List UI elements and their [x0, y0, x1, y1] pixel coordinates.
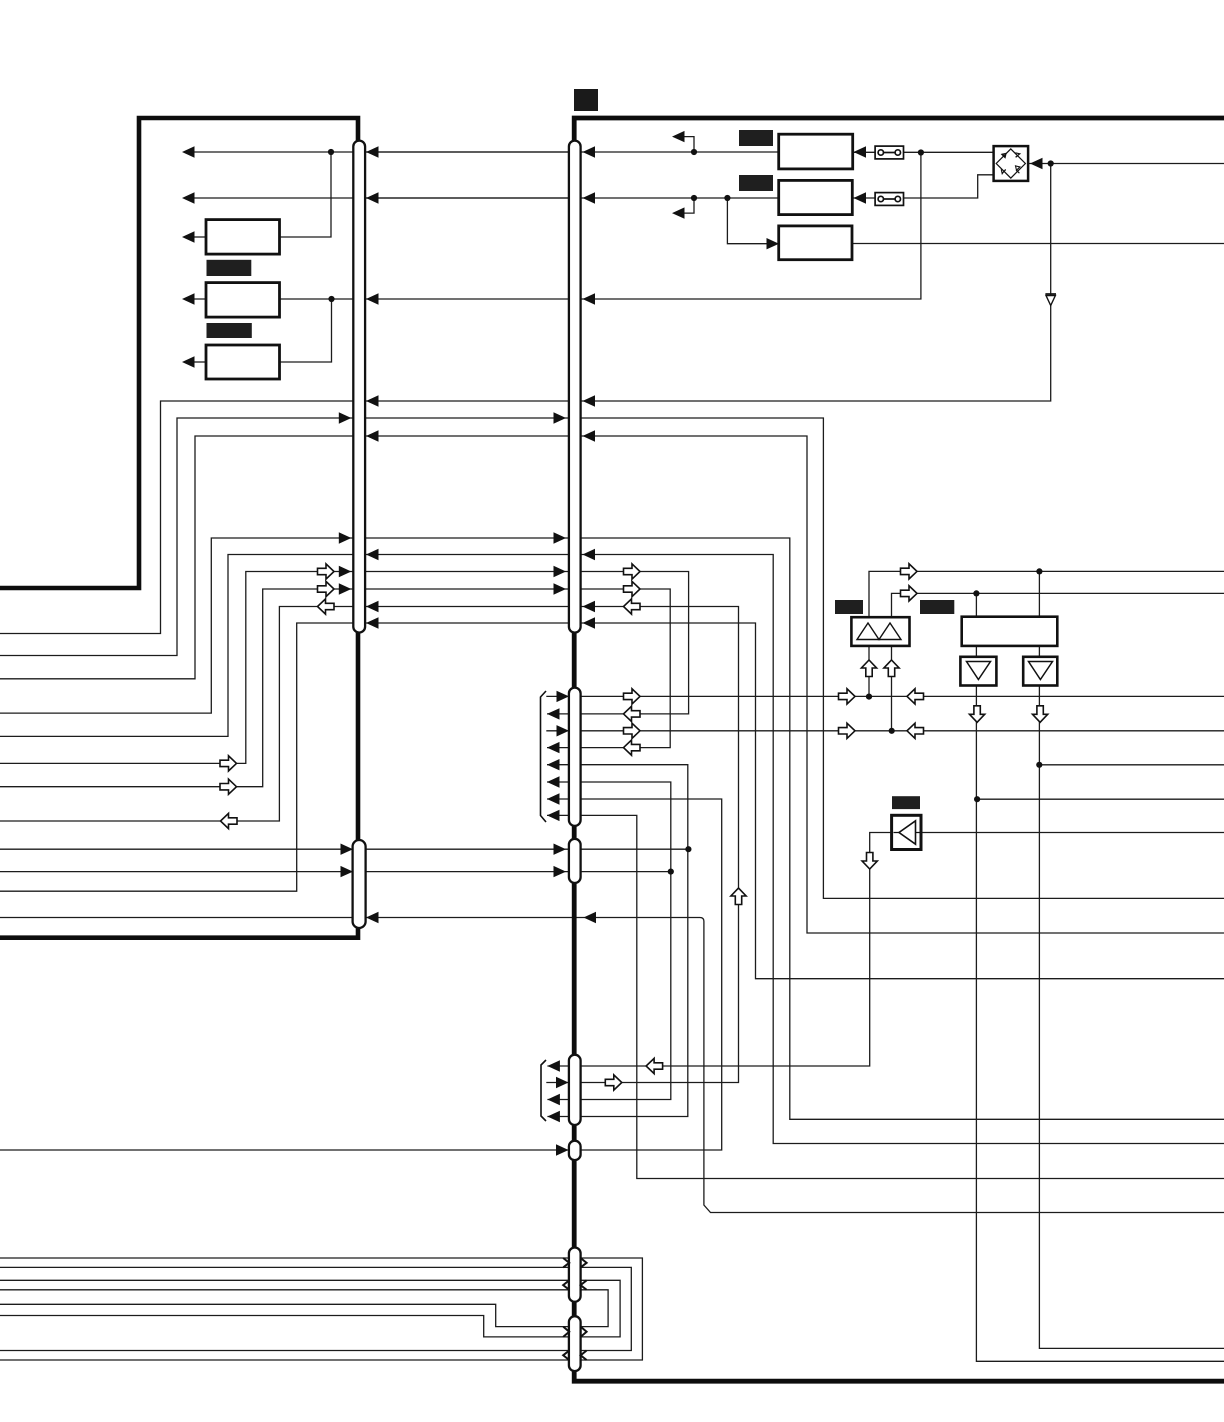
wire box3R output row243	[852, 243, 1224, 245]
open arrows right of pill2	[624, 564, 641, 579]
wire net815 to row1178	[547, 815, 1224, 1178]
open arrows near left corners	[220, 756, 237, 771]
wire amp output row832	[921, 832, 1224, 834]
wire net589 left	[0, 589, 354, 787]
wire arrow-to-box1L row237	[194, 236, 206, 238]
wire vert x977 down to row1361	[976, 593, 1224, 1361]
wire row696 long	[581, 695, 1224, 697]
wire net589 mid loopback747	[365, 589, 670, 748]
wire arrow-to-box3L row362	[194, 361, 206, 363]
wire net418	[0, 418, 1224, 898]
connector pill P3	[353, 840, 366, 928]
wire row730 long	[581, 730, 1224, 732]
wire net764 to pill4 row1116	[547, 765, 688, 1117]
wire net triangle-amp out1 row571	[869, 571, 1224, 622]
wire net538	[0, 538, 1224, 1119]
bus chevron pill7 right in	[581, 1351, 587, 1361]
arrowheads pill1 right side	[366, 146, 379, 157]
bus chevron pill7 right out	[581, 1327, 587, 1337]
arrowheads into blocks R1 R2 R3 bridge	[854, 146, 867, 157]
open down arrows under buffers	[970, 706, 985, 723]
bus pairC stepped upper	[0, 1304, 569, 1326]
open arrows row696	[839, 689, 856, 704]
bus chevron pill6 left in	[563, 1258, 569, 1267]
wire row299 pill1-pill2-fuse1	[365, 151, 921, 299]
block L1	[206, 220, 280, 255]
wire net436	[0, 436, 1224, 933]
connector pill P1	[353, 141, 365, 633]
wire row152 pill1-to-box1L	[194, 151, 779, 153]
wire vert x1039 down to row1348	[1039, 571, 1224, 1348]
wire net606 left	[0, 607, 354, 822]
label tab top	[574, 89, 598, 111]
connector pill P7	[569, 1316, 581, 1371]
wire net623 left	[0, 623, 354, 891]
wire row730 stub left of pill2	[546, 730, 569, 732]
label tag R1	[739, 130, 773, 146]
bus pairB outer loop	[0, 1280, 620, 1337]
bus pairA outer loop	[0, 1258, 642, 1360]
wire net799 to pill5 row1150	[0, 799, 722, 1150]
label tag regulator	[920, 600, 954, 614]
arrowhead pill5	[556, 1144, 569, 1155]
arrowheads left-box rows	[182, 146, 195, 157]
bridge rectifier	[994, 146, 1029, 181]
arrowheads pill2 seg3	[554, 844, 567, 855]
open up arrows under dual-diode	[861, 660, 876, 677]
arrowheads pill2 left side	[554, 412, 567, 423]
label tag L1	[207, 260, 252, 276]
arrowheads pill2b left side	[557, 691, 570, 702]
regulator block	[962, 617, 1058, 646]
block L3	[206, 345, 280, 379]
wire row198 between pills	[365, 197, 569, 199]
left unit box border	[0, 118, 358, 938]
right unit box border	[574, 118, 1224, 1381]
connector pill P2	[569, 141, 581, 633]
bus chevron pill6 left out	[563, 1280, 569, 1290]
connector pill P5	[569, 1141, 581, 1161]
wire box3R input elbow	[727, 198, 779, 244]
label tag R2	[739, 175, 773, 191]
wire row299 box2L-to-pill1	[194, 298, 354, 300]
diode D1	[1045, 294, 1056, 306]
bracket at pill P4	[541, 1060, 546, 1121]
block R3	[779, 226, 852, 260]
buffer U1	[960, 657, 996, 686]
label tag dual-diode	[835, 600, 863, 614]
bus chevron pill6 right in	[581, 1280, 587, 1290]
wire box3L output up to row299	[280, 299, 332, 362]
wire net triangle-amp out2 row593	[892, 593, 1224, 622]
block L2	[206, 283, 280, 318]
open arrows left of pill1	[318, 564, 335, 579]
connector pill P4	[569, 1055, 581, 1125]
dual-diode block	[851, 617, 909, 646]
wire net401 diode loop	[0, 164, 1051, 634]
bus pairC stepped lower	[0, 1316, 569, 1337]
wire net623 right row978	[365, 623, 1224, 979]
wire net917 to row1212	[0, 918, 1224, 1213]
wire bridge output row163	[1029, 163, 1224, 165]
wire net571 left	[0, 572, 354, 764]
wire triL right leg to dot730	[891, 640, 893, 731]
arrowheads elbow stubs	[672, 131, 685, 142]
wire fuse1 to bridge	[853, 151, 994, 153]
wire row198 pill1-to-box2L	[194, 197, 779, 199]
wire row871	[0, 871, 671, 873]
open arrows right cluster rows571 593	[901, 564, 918, 579]
bracket at pill P2b	[541, 691, 547, 822]
fuse F1	[875, 146, 903, 159]
buffer U2	[1023, 657, 1057, 686]
wire net571 mid loopback713	[365, 572, 689, 714]
block R1	[779, 134, 853, 169]
PILLS	[353, 141, 581, 1372]
wire row198 elbow stub	[683, 198, 694, 213]
arrowheads pill4	[547, 1060, 560, 1071]
connector pill P6	[569, 1248, 581, 1302]
block R2	[779, 180, 853, 214]
wire triL left leg to dot696	[868, 640, 870, 697]
wire row765 from x1039	[1039, 764, 1224, 766]
fuse F2	[875, 193, 903, 206]
bus chevron pill7 left in	[563, 1327, 569, 1337]
connector pill P2c	[569, 839, 581, 883]
wire row696 stub left of pill2	[546, 695, 569, 697]
bus pairB inner loop	[0, 1290, 608, 1327]
label tag L2	[207, 323, 252, 338]
wire row799 from x977	[977, 798, 1224, 800]
wire pill4 row1082 stub	[546, 1082, 569, 1084]
amp U3	[892, 815, 921, 849]
wire box1L output up to row152	[280, 152, 332, 237]
bus chevron pill7 left out	[563, 1351, 569, 1361]
connector pill P2b	[569, 688, 581, 826]
open arrows row730	[839, 723, 856, 738]
bus pairA inner loop	[0, 1267, 631, 1350]
wire net782 to pill4 row1099	[547, 782, 671, 1100]
arrowheads pill3	[341, 844, 354, 855]
wire row152 between pills	[365, 151, 569, 153]
wire net554	[0, 555, 1224, 1144]
MARKS	[207, 89, 955, 809]
open down arrow amp input	[862, 853, 877, 870]
wire amp input net to pill4 row1066	[547, 833, 891, 1067]
wire row152 elbow stub	[683, 137, 694, 152]
wire net606 mid to pill4 row1082	[365, 607, 739, 1083]
open up arrow on net606 vertical	[731, 888, 746, 905]
wire row849	[0, 848, 688, 850]
open arrows pill4 rows	[646, 1058, 663, 1073]
arrowheads pill1 left side	[339, 412, 352, 423]
junction dots	[328, 149, 334, 155]
bus chevron pill6 right out	[581, 1258, 587, 1267]
label tag amp	[892, 796, 920, 809]
arrowheads pill2 right side	[583, 146, 596, 157]
wire box2R-to-fuse2-bridge	[852, 175, 993, 198]
